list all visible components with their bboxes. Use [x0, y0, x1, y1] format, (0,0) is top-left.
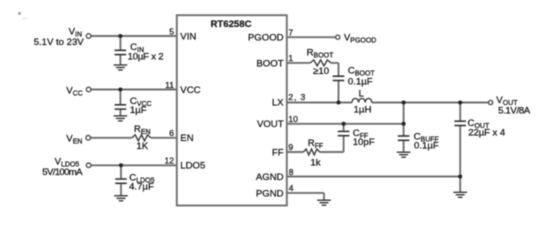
svg-text:PGND: PGND [256, 188, 284, 199]
svg-text:AGND: AGND [256, 172, 284, 183]
svg-text:RFF: RFF [308, 138, 324, 150]
svg-text:1µF: 1µF [130, 105, 147, 116]
svg-text:2, 3: 2, 3 [288, 92, 305, 102]
svg-text:PGOOD: PGOOD [248, 33, 284, 44]
svg-text:4: 4 [289, 183, 294, 193]
svg-text:VPGOOD: VPGOOD [344, 33, 376, 45]
svg-text:L: L [359, 88, 365, 99]
svg-text:5: 5 [169, 26, 174, 36]
svg-text:7: 7 [288, 27, 293, 37]
svg-text:VEN: VEN [66, 134, 82, 146]
svg-text:8: 8 [289, 167, 294, 177]
svg-text:12: 12 [165, 156, 175, 166]
svg-text:1K: 1K [136, 141, 148, 152]
svg-text:BOOT: BOOT [256, 58, 283, 69]
svg-text:10pF: 10pF [353, 137, 375, 148]
svg-text:5.1V to 23V: 5.1V to 23V [34, 37, 85, 48]
svg-text:REN: REN [134, 124, 151, 136]
svg-text:RT6258C: RT6258C [210, 19, 251, 30]
svg-text:5.1V/8A: 5.1V/8A [498, 106, 531, 117]
svg-text:5V/100mA: 5V/100mA [42, 167, 83, 178]
svg-text:VCC: VCC [180, 85, 200, 96]
svg-text:VIN: VIN [180, 31, 196, 42]
svg-text:FF: FF [272, 147, 284, 158]
svg-text:≥10: ≥10 [313, 66, 329, 77]
svg-text:RBOOT: RBOOT [307, 48, 334, 60]
svg-text:EN: EN [180, 133, 193, 144]
svg-text:LDO5: LDO5 [180, 161, 205, 172]
svg-text:VOUT: VOUT [257, 119, 284, 130]
svg-text:6: 6 [169, 128, 174, 138]
svg-text:1k: 1k [310, 157, 320, 168]
svg-text:22µF x 4: 22µF x 4 [468, 127, 506, 138]
svg-text:LX: LX [272, 97, 284, 108]
svg-text:10µF x 2: 10µF x 2 [128, 52, 164, 63]
svg-text:1µH: 1µH [354, 105, 372, 116]
svg-text:VCC: VCC [66, 85, 83, 97]
svg-text:0.1µF: 0.1µF [348, 76, 373, 87]
svg-text:1: 1 [288, 53, 293, 63]
svg-text:10: 10 [288, 114, 298, 124]
svg-text:9: 9 [288, 142, 293, 152]
svg-text:4.7µF: 4.7µF [129, 182, 154, 193]
svg-text:0.1µF: 0.1µF [414, 140, 439, 151]
svg-text:11: 11 [165, 80, 174, 90]
